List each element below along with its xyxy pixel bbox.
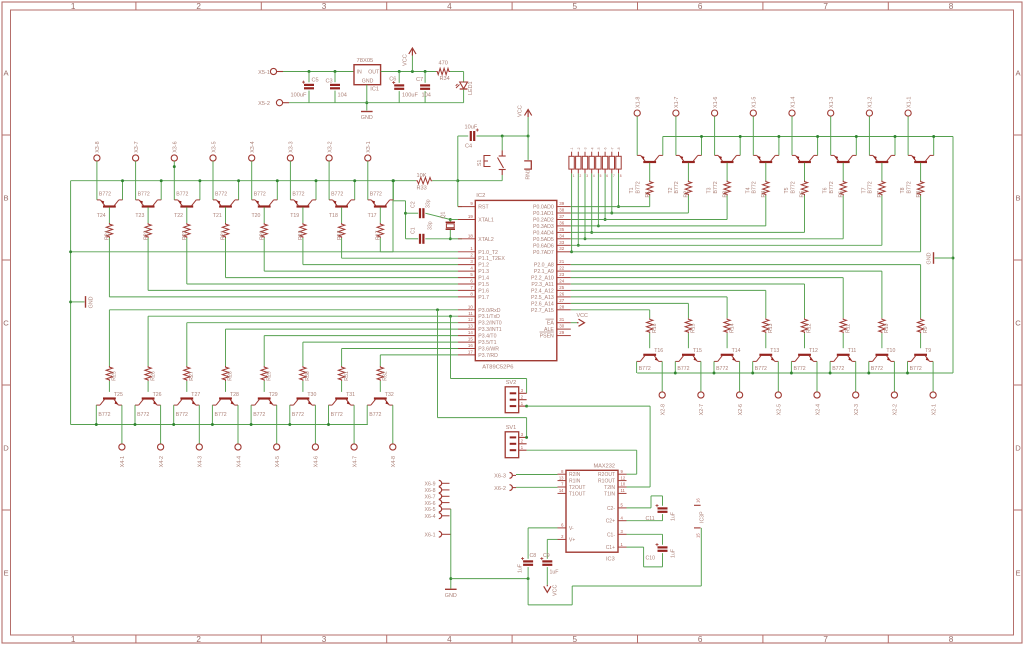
svg-text:B772: B772 xyxy=(138,191,150,197)
wire X1-8 to T1 emitter xyxy=(636,116,638,155)
svg-text:S1: S1 xyxy=(477,160,483,166)
transistor T13 B772 xyxy=(753,355,779,362)
wire P0.3 net xyxy=(571,225,766,227)
svg-text:SV2: SV2 xyxy=(506,380,517,386)
wire R28 to T28 base xyxy=(225,381,227,392)
wire X6-3 to R2IN xyxy=(516,474,558,476)
junction dot crystal gnd C2 xyxy=(404,212,407,215)
svg-text:3: 3 xyxy=(586,174,588,178)
junction dot rail T13 xyxy=(751,372,754,375)
junction dots RN1 on P0 rows xyxy=(570,250,573,253)
svg-text:X6-5: X6-5 xyxy=(425,507,436,513)
svg-text:T4: T4 xyxy=(745,187,751,193)
svg-text:IN: IN xyxy=(357,70,362,76)
wire P3.2 to R27 xyxy=(186,323,188,366)
svg-text:T1OUT: T1OUT xyxy=(569,491,585,497)
resistor R5 xyxy=(801,181,807,196)
connector X4-2 xyxy=(158,444,164,450)
wire R15 to T15 base xyxy=(687,333,689,348)
svg-text:78X05: 78X05 xyxy=(357,58,374,64)
svg-text:B772: B772 xyxy=(98,412,110,418)
wire T29 emitter to X4-5 xyxy=(276,405,278,444)
wire T16 emitter to X2-8 xyxy=(661,361,663,391)
svg-text:EA: EA xyxy=(547,321,554,327)
wire rail to T8 collector xyxy=(933,137,935,156)
svg-text:P0.0AD0: P0.0AD0 xyxy=(533,205,554,211)
wire T20 base to R20 xyxy=(263,207,265,223)
resistor R29 xyxy=(261,366,267,381)
svg-text:470: 470 xyxy=(439,61,448,67)
capacitor C5 100uF xyxy=(308,72,310,83)
wire rail to T18 collector xyxy=(354,181,356,200)
ground symbol right xyxy=(933,252,935,264)
svg-text:P3.4/T0: P3.4/T0 xyxy=(478,334,496,340)
IC2 pin 18 XTAL2 xyxy=(458,238,475,240)
resistor network common RN1 bracket xyxy=(524,161,531,169)
svg-text:T16: T16 xyxy=(654,348,663,354)
wire P3.7 net xyxy=(380,354,458,356)
frame column ticks bottom xyxy=(135,635,137,643)
junction dot rail T26 xyxy=(134,423,137,426)
IC2 pin 28 P2.7_A15 xyxy=(557,309,571,311)
resistor R24 xyxy=(106,223,112,238)
wire P0.4 net xyxy=(571,231,805,233)
svg-text:P1.1_T2EX: P1.1_T2EX xyxy=(478,256,505,262)
svg-text:R32: R32 xyxy=(383,371,389,381)
svg-text:V-: V- xyxy=(569,526,574,532)
svg-text:GND: GND xyxy=(362,79,374,85)
resistor R27 xyxy=(184,366,190,381)
svg-text:13: 13 xyxy=(559,475,564,480)
transistor T11 B772 xyxy=(830,355,856,362)
IC2 pin 16 P3.6/WR xyxy=(458,348,475,350)
svg-text:IC3: IC3 xyxy=(606,557,615,563)
IC2 pin 36 P0.3AD3 xyxy=(557,225,571,227)
svg-text:T10: T10 xyxy=(886,348,895,354)
svg-text:35: 35 xyxy=(559,227,564,232)
wire gnd staircase to IC3P pin 15 xyxy=(527,579,529,605)
svg-text:13: 13 xyxy=(468,324,473,329)
svg-text:R15: R15 xyxy=(691,323,697,333)
resistor R30 xyxy=(300,366,306,381)
svg-text:3: 3 xyxy=(470,259,473,264)
svg-text:X3-4: X3-4 xyxy=(250,141,256,152)
wire rail to T19 collector xyxy=(315,181,317,200)
svg-text:17: 17 xyxy=(468,349,473,354)
svg-text:X2-1: X2-1 xyxy=(931,404,937,415)
wire R24 to P1.7 row xyxy=(108,238,110,297)
transistor T32 B772 xyxy=(367,399,393,406)
svg-text:2: 2 xyxy=(521,395,524,400)
wire P3.5 net xyxy=(303,341,458,343)
svg-text:1: 1 xyxy=(573,174,575,178)
svg-text:T19: T19 xyxy=(290,213,299,219)
svg-text:X1-6: X1-6 xyxy=(713,97,719,108)
svg-text:P1.3: P1.3 xyxy=(478,269,489,275)
wire reset node to RST pin xyxy=(457,181,459,207)
junction dot XTAL1 node xyxy=(449,218,452,221)
capacitor C4 10uF xyxy=(458,135,468,137)
svg-text:T1: T1 xyxy=(629,187,635,193)
wire X3-7 to T23 emitter xyxy=(135,161,137,200)
wire T26 emitter to X4-2 xyxy=(160,405,162,444)
svg-text:R33: R33 xyxy=(417,186,427,192)
svg-text:X4-7: X4-7 xyxy=(352,456,358,467)
svg-text:5: 5 xyxy=(600,174,602,178)
svg-text:B772: B772 xyxy=(292,191,304,197)
wire T29 collector to rail xyxy=(250,405,252,424)
transistor T7 B772 xyxy=(869,155,895,162)
svg-text:B772: B772 xyxy=(716,366,728,372)
wire P0.2 net xyxy=(571,219,727,221)
svg-text:B772: B772 xyxy=(254,191,266,197)
junction dot rail T17 xyxy=(392,179,395,182)
wire R34 to LED1 xyxy=(450,71,464,73)
svg-text:RN1: RN1 xyxy=(526,169,532,179)
wire T17 base to R17 xyxy=(379,207,381,223)
wire regulator OUT rail xyxy=(381,71,437,73)
wire T14 emitter to X2-6 xyxy=(739,361,741,391)
svg-text:X1-3: X1-3 xyxy=(829,97,835,108)
wire T27 emitter to X4-3 xyxy=(198,405,200,444)
transistor T5 B772 xyxy=(792,155,818,162)
svg-text:1uF: 1uF xyxy=(518,564,524,573)
svg-text:B772: B772 xyxy=(215,412,227,418)
wire P2.3 net xyxy=(571,283,805,285)
svg-text:B772: B772 xyxy=(832,366,844,372)
svg-text:X4-4: X4-4 xyxy=(236,456,242,467)
svg-text:R29: R29 xyxy=(266,371,272,381)
IC3 pin 12 R1OUT xyxy=(618,480,627,482)
svg-text:14: 14 xyxy=(559,488,564,493)
svg-text:7: 7 xyxy=(613,174,615,178)
resistor network RN1 element 8 xyxy=(616,156,621,169)
wire X3-8 to T24 emitter xyxy=(96,161,98,200)
junction dot rail T12 xyxy=(790,372,793,375)
svg-text:P3.1/TxD: P3.1/TxD xyxy=(478,314,500,320)
frame row ticks right xyxy=(1014,134,1023,136)
svg-text:7: 7 xyxy=(470,285,473,290)
wire T9 emitter to X2-1 xyxy=(932,361,934,391)
svg-text:X4-6: X4-6 xyxy=(314,456,320,467)
svg-text:B772: B772 xyxy=(292,412,304,418)
svg-text:7: 7 xyxy=(823,635,828,644)
svg-text:B772: B772 xyxy=(871,366,883,372)
svg-text:T27: T27 xyxy=(191,392,200,398)
svg-text:T21: T21 xyxy=(213,213,222,219)
connector X4-8 xyxy=(390,444,396,450)
wire right vertical rail from top bank xyxy=(952,137,954,374)
IC3 pin 7 T2OUT xyxy=(558,486,567,488)
wire X3-4 to T20 emitter xyxy=(251,161,253,200)
svg-text:1: 1 xyxy=(470,246,473,251)
svg-text:D: D xyxy=(1015,444,1021,453)
svg-text:R9: R9 xyxy=(923,326,929,333)
IC2 pin 30 ALE xyxy=(557,328,571,330)
svg-text:B772: B772 xyxy=(636,181,642,193)
svg-text:T32: T32 xyxy=(385,392,394,398)
wire R21 to P1.4 row xyxy=(225,238,227,278)
svg-text:P1.4: P1.4 xyxy=(478,276,489,282)
connector X4-5 xyxy=(274,444,280,450)
svg-text:T13: T13 xyxy=(770,348,779,354)
svg-text:C4: C4 xyxy=(465,144,472,150)
svg-text:X2-6: X2-6 xyxy=(738,404,744,415)
junction dot C8 bottom xyxy=(527,577,530,580)
wire R1 to P0.0 row xyxy=(649,196,651,207)
wire P2.7 net xyxy=(571,309,650,311)
svg-text:B772: B772 xyxy=(369,412,381,418)
svg-text:E: E xyxy=(3,569,8,578)
junction dot rail T24 xyxy=(121,179,124,182)
svg-text:Q1: Q1 xyxy=(441,211,447,218)
svg-text:T28: T28 xyxy=(230,392,239,398)
wire left vertical gnd rail xyxy=(70,181,72,425)
transistor T3 B772 xyxy=(715,155,741,162)
transistor T23 B772 xyxy=(136,200,162,207)
svg-text:29: 29 xyxy=(559,330,564,335)
svg-text:16: 16 xyxy=(468,343,473,348)
svg-text:-7: -7 xyxy=(610,147,614,150)
wire X6-5 down to ground xyxy=(450,509,452,589)
transistor T31 B772 xyxy=(329,399,355,406)
wire T30 collector to rail xyxy=(289,405,291,424)
svg-text:34: 34 xyxy=(559,233,564,238)
IC2 pin 2 P1.1_T2EX xyxy=(458,257,475,259)
svg-text:X1-8: X1-8 xyxy=(636,97,642,108)
svg-text:P2.1_A9: P2.1_A9 xyxy=(534,269,554,275)
wire T1 base to R1 xyxy=(649,163,651,181)
wire gnd line to C8 xyxy=(451,578,528,580)
svg-text:LED1: LED1 xyxy=(468,82,474,96)
svg-text:X3-3: X3-3 xyxy=(289,141,295,152)
svg-text:2: 2 xyxy=(196,2,201,11)
IC3 pin 8 R2IN xyxy=(558,473,567,475)
wire R27 to T27 base xyxy=(186,381,188,392)
svg-text:P0.7AD7: P0.7AD7 xyxy=(533,250,554,256)
svg-text:-6: -6 xyxy=(604,147,608,150)
transistor T20 B772 xyxy=(252,200,278,207)
wire X1-2 to T7 emitter xyxy=(868,116,870,155)
capacitor C6 100uF xyxy=(398,72,400,83)
IC2 pin 35 P0.4AD4 xyxy=(557,231,571,233)
resistor network RN1 element 3 xyxy=(582,156,587,169)
svg-text:8: 8 xyxy=(949,2,954,11)
transistor T28 B772 xyxy=(212,399,238,406)
junction dot rail T19 xyxy=(315,179,318,182)
resistor R17 xyxy=(377,223,383,238)
svg-text:C9: C9 xyxy=(543,553,550,559)
svg-text:T3: T3 xyxy=(707,187,713,193)
svg-text:P0.6AD6: P0.6AD6 xyxy=(533,243,554,249)
wire T6 base to R6 xyxy=(842,163,844,181)
wire R5 to P0.4 row xyxy=(804,196,806,233)
resistor R31 xyxy=(338,366,344,381)
svg-text:C7: C7 xyxy=(416,77,423,83)
svg-text:T2: T2 xyxy=(668,187,674,193)
svg-text:B772: B772 xyxy=(677,366,689,372)
svg-text:T23: T23 xyxy=(135,213,144,219)
wire R14 to T14 base xyxy=(726,333,728,348)
wire R7 to P0.6 row xyxy=(881,196,883,246)
svg-text:-5: -5 xyxy=(597,147,601,150)
svg-text:39: 39 xyxy=(559,201,564,206)
connector X4-7 xyxy=(351,444,357,450)
wire P3.7 to R32 xyxy=(379,355,381,366)
svg-text:P0.4AD4: P0.4AD4 xyxy=(533,230,554,236)
resistor R34 470 xyxy=(436,68,450,74)
capacitor C8 1uF xyxy=(527,528,529,559)
wire C2 to XTAL1 node xyxy=(425,213,450,219)
svg-text:MAX232: MAX232 xyxy=(594,464,615,470)
svg-text:X1-1: X1-1 xyxy=(906,97,912,108)
svg-text:11: 11 xyxy=(468,311,473,316)
svg-text:P0.2AD2: P0.2AD2 xyxy=(533,218,554,224)
svg-text:R2OUT: R2OUT xyxy=(598,472,615,478)
svg-text:6: 6 xyxy=(606,174,608,178)
connector X4-1 xyxy=(119,444,125,450)
svg-text:VCC: VCC xyxy=(553,585,559,596)
IC3 pin 11 T1IN xyxy=(618,492,627,494)
IC2 pin 27 P2.6_A14 xyxy=(557,302,571,304)
wire T19 base to R19 xyxy=(302,207,304,223)
wire P3.1 TxD branch down xyxy=(450,316,452,378)
wire X1-3 to T6 emitter xyxy=(830,116,832,155)
junction dot rail T22 xyxy=(198,179,201,182)
svg-text:R13: R13 xyxy=(768,323,774,333)
wire P0.1 net xyxy=(571,212,689,214)
IC2 pin 26 P2.5_A13 xyxy=(557,296,571,298)
svg-text:16: 16 xyxy=(696,498,701,503)
svg-text:X5-1: X5-1 xyxy=(258,70,270,76)
wire X5-1 to regulator IN xyxy=(283,71,354,73)
svg-text:B772: B772 xyxy=(868,181,874,193)
wire rail to T24 collector xyxy=(122,181,124,200)
wire R10 to T10 base xyxy=(881,333,883,348)
wire P1.1 net xyxy=(342,257,458,259)
wire rail to T7 collector xyxy=(894,137,896,156)
svg-text:26: 26 xyxy=(559,291,564,296)
svg-text:B772: B772 xyxy=(639,366,651,372)
wire rail to T23 collector xyxy=(160,181,162,200)
svg-text:P2.2_A10: P2.2_A10 xyxy=(531,276,554,282)
transistor T29 B772 xyxy=(251,399,277,406)
svg-text:P1.7: P1.7 xyxy=(478,295,489,301)
IC2 pin 21 P2.0_A8 xyxy=(557,264,571,266)
wire X1-5 to T4 emitter xyxy=(752,116,754,155)
svg-text:P3.3/INT1: P3.3/INT1 xyxy=(478,327,501,333)
junction dot rail T2 xyxy=(700,135,703,138)
LED LED1 xyxy=(460,82,468,89)
junction dot XTAL2 node xyxy=(449,237,452,240)
svg-text:GND: GND xyxy=(361,115,373,121)
resistor R1 xyxy=(647,181,653,196)
wire rail left bank xyxy=(71,180,393,182)
svg-text:A: A xyxy=(3,69,9,78)
svg-text:-8: -8 xyxy=(617,147,621,150)
IC3 pin 10 T2IN xyxy=(618,486,627,488)
junction dot R33 left xyxy=(392,179,395,182)
transistor T24 B772 xyxy=(97,200,123,207)
overline on PSEN pin name xyxy=(540,331,554,333)
svg-text:X6-6: X6-6 xyxy=(425,501,436,507)
wire rail to T5 collector xyxy=(817,137,819,156)
frame row ticks left xyxy=(2,134,11,136)
wire R13 to T13 base xyxy=(765,333,767,348)
svg-text:X3-1: X3-1 xyxy=(366,141,372,152)
svg-text:10: 10 xyxy=(621,482,626,487)
wire R12 to T12 base xyxy=(804,333,806,348)
capacitor C7 104 xyxy=(424,72,426,83)
connector X2-3 xyxy=(853,392,859,398)
svg-text:1uF: 1uF xyxy=(671,549,677,558)
svg-text:VCC: VCC xyxy=(518,105,524,117)
svg-text:IC2: IC2 xyxy=(476,193,485,199)
junction dot left rail gnd symbol xyxy=(69,300,72,303)
IC2 pin 29 PSEN xyxy=(557,335,571,337)
svg-text:X4-1: X4-1 xyxy=(120,456,126,467)
resistor R4 xyxy=(763,181,769,196)
svg-text:P2.6_A14: P2.6_A14 xyxy=(531,301,554,307)
svg-text:104: 104 xyxy=(338,93,347,99)
svg-text:5: 5 xyxy=(621,503,624,508)
svg-text:P1.2: P1.2 xyxy=(478,263,489,269)
svg-text:3: 3 xyxy=(521,432,524,437)
transistor T21 B772 xyxy=(213,200,239,207)
IC2 pin 7 P1.6 xyxy=(458,289,475,291)
svg-text:6: 6 xyxy=(561,523,564,528)
wire V+ to C9 xyxy=(547,538,557,540)
svg-text:B772: B772 xyxy=(331,191,343,197)
svg-text:104: 104 xyxy=(422,93,431,99)
junction dot rail T11 xyxy=(829,372,832,375)
frame column ticks top xyxy=(135,2,137,10)
svg-text:B772: B772 xyxy=(790,181,796,193)
svg-text:1uF: 1uF xyxy=(671,512,677,521)
IC2 pin 4 P1.3 xyxy=(458,270,475,272)
svg-text:30: 30 xyxy=(559,324,564,329)
resistor R18 xyxy=(338,223,344,238)
svg-text:X6-4: X6-4 xyxy=(425,514,436,520)
wire R20 to P1.3 row xyxy=(263,238,265,271)
IC3 pin 9 R2OUT xyxy=(618,473,627,475)
svg-text:SV1: SV1 xyxy=(506,425,517,431)
IC2 pin 8 P1.7 xyxy=(458,296,475,298)
svg-text:IC1: IC1 xyxy=(370,87,379,93)
svg-text:100uF: 100uF xyxy=(402,93,418,99)
svg-text:T14: T14 xyxy=(732,348,741,354)
wire R30 to T30 base xyxy=(302,381,304,392)
wire P1.7 net xyxy=(109,296,458,298)
wire T9 collector to rail xyxy=(907,361,909,373)
junction dot rail T7 xyxy=(894,135,897,138)
capacitor C2 33p xyxy=(406,212,419,214)
resistor R6 xyxy=(840,181,846,196)
junction dot C8 branch xyxy=(449,577,452,580)
wire P2.3 to R12 xyxy=(804,284,806,318)
junction dot left rail gnd line xyxy=(69,250,72,253)
svg-text:E: E xyxy=(1015,569,1020,578)
wire R32 to T32 base xyxy=(379,381,381,392)
IC2 pin 19 XTAL1 xyxy=(458,219,475,221)
svg-text:B: B xyxy=(1015,194,1020,203)
wire P2.6 to R15 xyxy=(687,303,689,318)
wire R9 to T9 base xyxy=(920,333,922,348)
wire P2.5 to R14 xyxy=(726,297,728,318)
IC3 pin 13 R1IN xyxy=(558,480,567,482)
wire T30 emitter to X4-6 xyxy=(314,405,316,444)
svg-text:P2.7_A15: P2.7_A15 xyxy=(531,308,554,314)
